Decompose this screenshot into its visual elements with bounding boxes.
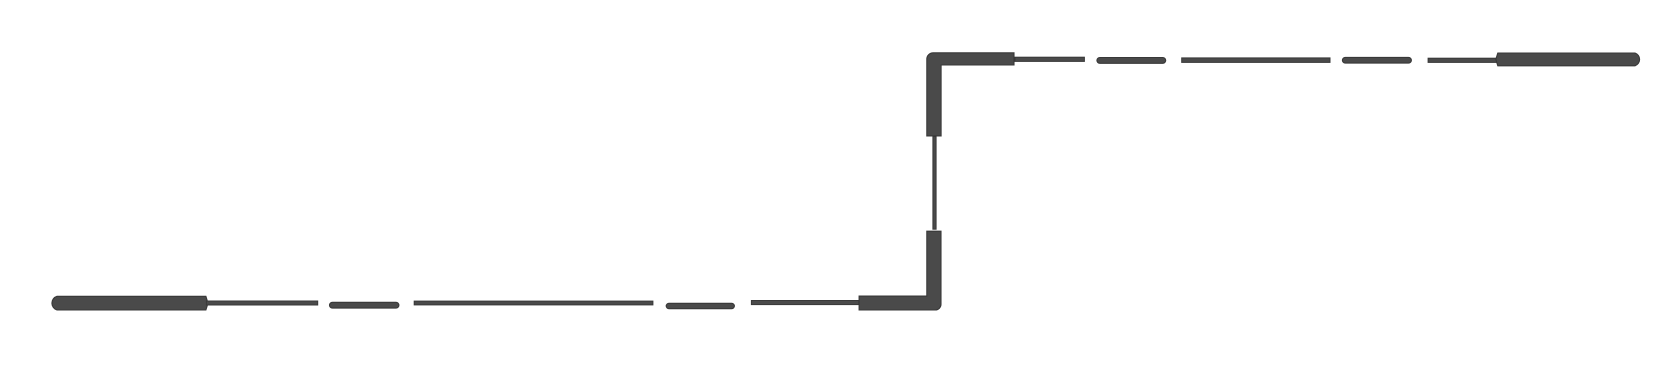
wire: bottom-right corner thick L (rounded outer corner) [859, 231, 941, 310]
wire: bottom thin segment 2 [414, 301, 653, 305]
wire: bottom-left thick segment (rounded left cap, chisel right tip) [52, 296, 208, 310]
wire: bottom dash 2 [666, 303, 734, 308]
wire: bottom dash 1 [330, 302, 399, 308]
wire: top thin segment 1 [1015, 57, 1084, 61]
wire: top-left corner thick L (rounded outer corner) [927, 53, 1014, 136]
wire: vertical thin segment [933, 137, 936, 230]
wire: top thin segment 3 [1428, 58, 1497, 62]
wire: top-right thick segment (chisel left tip, rounded right cap) [1496, 53, 1640, 66]
wire: top thin segment 2 [1182, 58, 1330, 63]
wire: top dash 2 [1342, 57, 1411, 63]
wire: bottom thin segment 1 [206, 301, 317, 305]
wire: bottom thin segment 3 [751, 301, 859, 305]
wire: top dash 1 [1097, 58, 1166, 64]
